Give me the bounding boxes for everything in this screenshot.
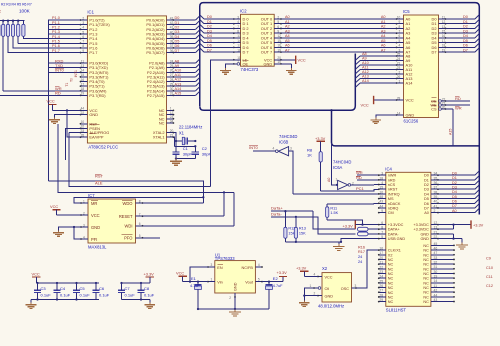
svg-text:5: 5 <box>82 30 84 34</box>
svg-text:+3.3V: +3.3V <box>144 271 155 276</box>
svg-text:C8: C8 <box>144 286 150 291</box>
svg-text:+3.3VDC: +3.3VDC <box>413 228 429 232</box>
svg-text:P1.7: P1.7 <box>52 49 60 53</box>
IC7 GND pin 3 <box>81 226 88 228</box>
svg-text:C11: C11 <box>486 275 493 279</box>
svg-text:1.5K: 1.5K <box>330 211 338 215</box>
wire MR loop <box>74 197 203 203</box>
svg-text:A9: A9 <box>362 57 367 61</box>
IC4 A0 pin <box>431 212 438 214</box>
svg-text:GND: GND <box>406 113 415 118</box>
inverter IC6B <box>278 147 288 156</box>
IC4 X2 pin 17 <box>379 254 386 256</box>
svg-text:5: 5 <box>399 39 401 43</box>
svg-text:20: 20 <box>379 256 383 260</box>
wire resistor to P1.4 <box>23 36 80 38</box>
svg-text:T1: T1 <box>65 83 69 87</box>
svg-text:IC4: IC4 <box>385 166 392 171</box>
svg-text:37: 37 <box>170 44 174 48</box>
svg-text:D5: D5 <box>207 39 212 43</box>
wire X2 Ctl GND <box>304 288 314 301</box>
svg-text:INT1: INT1 <box>74 70 78 77</box>
svg-text:39: 39 <box>170 35 174 39</box>
svg-text:D4: D4 <box>424 192 429 196</box>
svg-text:OSC: OSC <box>341 287 349 291</box>
svg-text:A1: A1 <box>381 20 386 24</box>
svg-text:7: 7 <box>399 29 401 33</box>
svg-text:13: 13 <box>237 34 241 38</box>
svg-text:11: 11 <box>434 284 438 288</box>
svg-text:A12: A12 <box>175 78 182 82</box>
svg-text:A13: A13 <box>362 75 369 79</box>
wires bus to IC2 inputs with D labels <box>200 15 204 19</box>
wires A0-A7 latch to RAM <box>281 18 397 20</box>
svg-text:13: 13 <box>442 25 446 29</box>
svg-text:AT89C52 PLCC: AT89C52 PLCC <box>88 145 118 150</box>
RAM IC5 body <box>404 15 439 118</box>
ground at IC2 OE <box>226 64 234 68</box>
svg-text:NC: NC <box>388 281 394 285</box>
svg-text:D2: D2 <box>207 25 212 29</box>
svg-text:A12: A12 <box>362 70 369 74</box>
IC4 data pins D0-D7 <box>431 174 438 176</box>
svg-text:A0: A0 <box>327 178 331 182</box>
+3.3V at IC4 right <box>438 224 471 226</box>
ground at cap bank 2 <box>149 300 151 303</box>
svg-text:NC: NC <box>388 300 394 304</box>
svg-text:D2: D2 <box>452 181 457 185</box>
svg-text:2: 2 <box>434 209 436 213</box>
svg-text:X2: X2 <box>322 266 328 271</box>
svg-text:A0: A0 <box>381 15 386 19</box>
ground at IC7 <box>58 227 81 230</box>
wires RAM D0-D7 to bus <box>446 18 475 20</box>
svg-text:4: 4 <box>83 235 85 239</box>
svg-text:61C256: 61C256 <box>404 118 419 123</box>
wire caps to ground <box>176 157 195 158</box>
svg-text:MR: MR <box>91 201 97 206</box>
svg-text:30pF: 30pF <box>183 152 193 157</box>
svg-text:VCC: VCC <box>361 103 369 108</box>
svg-text:D7: D7 <box>452 204 457 208</box>
IC4 left control pins <box>379 174 386 176</box>
IC1 EA/VPP pin 35 <box>81 136 88 138</box>
svg-text:NC: NC <box>423 286 429 290</box>
svg-text:D6: D6 <box>452 199 457 203</box>
svg-text:41: 41 <box>170 26 174 30</box>
svg-text:PFO: PFO <box>124 236 132 241</box>
svg-text:D4: D4 <box>207 34 212 38</box>
svg-text:D2: D2 <box>175 26 180 30</box>
svg-text:9: 9 <box>399 20 401 24</box>
wire IC2 LE from ALE <box>210 60 234 187</box>
svg-text:13: 13 <box>434 226 438 230</box>
wire USB GND <box>341 239 379 242</box>
IC7 WDO pin 8 <box>136 202 143 204</box>
svg-text:D3: D3 <box>463 29 468 33</box>
svg-text:D1: D1 <box>463 20 468 24</box>
wire P1.1 <box>49 24 81 26</box>
ground at IC5 GND <box>376 115 397 118</box>
IC1 GND pin 22 <box>81 114 88 116</box>
svg-text:NC: NC <box>388 272 394 276</box>
svg-text:A3: A3 <box>381 29 386 33</box>
svg-text:DaTa+: DaTa+ <box>271 206 283 211</box>
IC7 VCC pin 2 <box>81 214 88 216</box>
svg-text:A0: A0 <box>452 209 457 213</box>
svg-text:C1: C1 <box>183 146 189 151</box>
svg-text:A14: A14 <box>362 79 369 83</box>
svg-text:24: 24 <box>379 275 383 279</box>
ferrite bead L1 <box>358 227 369 231</box>
svg-text:20: 20 <box>442 105 446 109</box>
svg-text:16: 16 <box>442 34 446 38</box>
svg-text:100K: 100K <box>19 9 31 14</box>
IC1 pins P0.0-P0.7 <box>167 19 174 21</box>
svg-text:T0: T0 <box>70 78 74 82</box>
svg-text:VCC: VCC <box>47 99 55 104</box>
svg-text:26: 26 <box>379 284 383 288</box>
svg-text:A5: A5 <box>381 39 386 43</box>
svg-text:4.7uF: 4.7uF <box>190 284 200 288</box>
svg-text:24: 24 <box>170 59 174 63</box>
svg-text:17: 17 <box>237 44 241 48</box>
IC4 power and USB pins <box>379 224 386 226</box>
wire inverter IC6B output <box>253 150 276 152</box>
svg-text:DATA+: DATA+ <box>388 228 401 232</box>
svg-text:4: 4 <box>82 26 84 30</box>
svg-text:NC: NC <box>388 263 394 267</box>
svg-text:10: 10 <box>277 60 281 64</box>
svg-text:P1.0: P1.0 <box>52 16 60 20</box>
net label WR at IC5 WE <box>446 104 471 106</box>
svg-text:A13: A13 <box>175 82 182 86</box>
U1 Vout pin <box>255 281 262 283</box>
svg-text:26: 26 <box>170 69 174 73</box>
svg-text:EN: EN <box>217 266 223 270</box>
svg-text:P2.7(A15): P2.7(A15) <box>147 93 165 98</box>
svg-text:22: 22 <box>81 111 85 115</box>
wire ALE stub from IC1 <box>69 132 81 134</box>
svg-text:IC6A: IC6A <box>333 165 343 170</box>
IC4 right NC pins <box>431 244 454 246</box>
svg-text:D5: D5 <box>424 197 429 201</box>
svg-text:8: 8 <box>381 226 383 230</box>
svg-text:GND: GND <box>91 225 100 230</box>
svg-text:28: 28 <box>379 293 383 297</box>
svg-text:42: 42 <box>434 289 438 293</box>
svg-text:WDO: WDO <box>122 201 132 206</box>
resistor R12 15K <box>284 211 286 227</box>
svg-text:33: 33 <box>434 256 438 260</box>
X2 GND pin 2 <box>318 295 322 297</box>
svg-text:11: 11 <box>442 15 446 19</box>
svg-text:MAX813L: MAX813L <box>88 244 107 249</box>
svg-text:38: 38 <box>434 190 438 194</box>
svg-text:IC5: IC5 <box>403 9 410 14</box>
svg-text:MS: MS <box>388 197 394 201</box>
svg-text:D1: D1 <box>424 178 429 182</box>
ground at X2 <box>303 301 305 303</box>
svg-text:15: 15 <box>442 29 446 33</box>
wire ALE line to latch LE <box>69 133 210 187</box>
svg-text:GND: GND <box>325 294 334 298</box>
X2 OSC pin 3 <box>352 287 357 289</box>
svg-text:5: 5 <box>258 278 260 282</box>
pull-up resistors 100K bodies <box>2 21 4 25</box>
ferrite bead L2 <box>358 232 369 236</box>
svg-text:nRD: nRD <box>388 178 396 182</box>
svg-text:15: 15 <box>379 186 383 190</box>
wire WDO loop line1 <box>49 181 204 203</box>
IC5 CS pin 20 <box>439 108 442 111</box>
svg-text:2: 2 <box>83 211 85 215</box>
svg-text:VCC: VCC <box>325 275 333 279</box>
svg-text:20: 20 <box>170 129 174 133</box>
wire WDI up <box>143 192 235 225</box>
svg-text:48.0/12.0MHz: 48.0/12.0MHz <box>318 303 344 308</box>
svg-text:15: 15 <box>277 39 281 43</box>
svg-text:A9: A9 <box>175 64 180 68</box>
capacitor E1 4.7uF <box>197 282 199 285</box>
svg-text:NC: NC <box>423 300 429 304</box>
svg-text:nRST: nRST <box>388 188 398 192</box>
svg-text:TPS76333: TPS76333 <box>215 256 235 261</box>
svg-text:+3.3V: +3.3V <box>277 270 288 275</box>
svg-text:D6: D6 <box>175 44 180 48</box>
svg-text:6: 6 <box>399 34 401 38</box>
svg-text:EA/VPP: EA/VPP <box>89 135 103 140</box>
svg-text:NC: NC <box>423 263 429 267</box>
IC1 XTAL1 pin 21 <box>167 136 174 138</box>
wires P2 to bus with A8-A15 labels <box>173 62 195 64</box>
wire IC6A output <box>351 184 374 186</box>
wire DaTa+ <box>271 211 356 229</box>
svg-text:IC6B: IC6B <box>279 139 289 144</box>
IC1 pins P3.0-P3.7 <box>81 62 88 64</box>
svg-text:25: 25 <box>170 64 174 68</box>
svg-text:R17: R17 <box>358 250 365 254</box>
svg-text:P0.7(AD7): P0.7(AD7) <box>146 50 165 55</box>
svg-text:25: 25 <box>397 52 401 56</box>
svg-text:VCC: VCC <box>50 204 58 209</box>
wires P0 to bus with D0-D7 labels <box>173 19 195 21</box>
wire PFO stub <box>143 237 161 239</box>
ground under crystal <box>175 159 177 162</box>
svg-text:18: 18 <box>81 87 85 91</box>
svg-text:NC: NC <box>423 291 429 295</box>
IC2 input pins D0-D7 <box>234 18 241 20</box>
svg-text:14: 14 <box>397 111 401 115</box>
svg-text:19: 19 <box>442 48 446 52</box>
net label RD at IC5 OE <box>446 100 471 102</box>
svg-text:0.1uF: 0.1uF <box>80 293 91 298</box>
ground at IC2 GND <box>281 64 291 68</box>
svg-text:A6: A6 <box>381 44 386 48</box>
wire RD from clipped resistor <box>0 94 81 96</box>
svg-text:D1: D1 <box>452 176 457 180</box>
X2 VCC pin 4 <box>318 276 322 278</box>
latch IC2 body <box>241 14 275 66</box>
svg-text:+3.3V: +3.3V <box>296 266 307 271</box>
IC5 WE pin 27 <box>439 104 442 107</box>
svg-text:X2: X2 <box>388 253 393 257</box>
svg-text:D4: D4 <box>463 34 468 38</box>
capacitor C6 0.1uF <box>95 283 97 287</box>
svg-text:9: 9 <box>277 29 279 33</box>
svg-text:44: 44 <box>379 204 383 208</box>
svg-text:7: 7 <box>82 40 84 44</box>
ground rail under R12 R13 <box>285 241 341 243</box>
svg-text:Vin: Vin <box>217 280 222 284</box>
svg-text:18: 18 <box>237 48 241 52</box>
svg-text:D0: D0 <box>207 15 212 19</box>
svg-text:GND: GND <box>234 282 238 291</box>
svg-text:D0: D0 <box>424 174 429 178</box>
svg-text:C12: C12 <box>486 284 493 288</box>
svg-text:D7: D7 <box>432 50 437 55</box>
svg-text:3: 3 <box>83 223 85 227</box>
svg-text:NC: NC <box>423 295 429 299</box>
svg-text:44: 44 <box>434 293 438 297</box>
IC4 right power pins <box>431 224 438 226</box>
wire U1 bottom rail <box>197 293 199 309</box>
svg-text:8: 8 <box>139 199 141 203</box>
svg-text:4: 4 <box>237 20 239 24</box>
svg-text:E1: E1 <box>191 276 197 281</box>
wires A8-A14 bus to RAM <box>355 56 360 60</box>
IC1 pins P1.0-P1.7 <box>81 19 88 21</box>
svg-text:WDI: WDI <box>125 224 133 229</box>
svg-text:24: 24 <box>358 255 362 259</box>
svg-text:17: 17 <box>81 82 85 86</box>
svg-text:48: 48 <box>379 195 383 199</box>
IC1 PSEN pin 32 <box>81 127 88 129</box>
svg-text:34: 34 <box>434 172 438 176</box>
svg-text:NC: NC <box>388 277 394 281</box>
svg-text:P1.4: P1.4 <box>52 35 60 39</box>
svg-text:A11: A11 <box>362 66 368 70</box>
svg-text:24: 24 <box>397 57 401 61</box>
svg-text:29: 29 <box>379 298 383 302</box>
svg-text:D4: D4 <box>175 35 180 39</box>
wire XTAL1 to crystal <box>173 137 195 151</box>
capacitor C7 0.1uF <box>121 283 123 287</box>
svg-text:X1: X1 <box>179 130 185 135</box>
IC4 left NC pins <box>379 259 386 261</box>
capacitor C5 0.1uF <box>76 283 78 287</box>
svg-text:nDACK: nDACK <box>388 202 401 206</box>
svg-text:9: 9 <box>381 209 383 213</box>
svg-text:C7: C7 <box>125 286 131 291</box>
IC2 VCC pin 20 <box>274 59 281 61</box>
capacitor C2 <box>192 151 199 153</box>
wire INT0 <box>48 71 81 73</box>
wire P1.2 <box>49 28 81 30</box>
svg-text:7: 7 <box>381 230 383 234</box>
svg-text:46: 46 <box>434 246 438 250</box>
svg-text:32: 32 <box>434 261 438 265</box>
svg-text:3: 3 <box>211 263 213 267</box>
svg-text:VCC: VCC <box>176 271 184 276</box>
svg-text:OE: OE <box>243 61 249 66</box>
svg-text:0.1uF: 0.1uF <box>60 293 71 298</box>
svg-text:NC: NC <box>423 281 429 285</box>
svg-text:23: 23 <box>397 66 401 70</box>
svg-text:36: 36 <box>434 181 438 185</box>
svg-text:19: 19 <box>277 48 281 52</box>
microcontroller IC1 AT89C52 body <box>87 16 166 143</box>
svg-text:43: 43 <box>434 298 438 302</box>
svg-text:19: 19 <box>434 275 438 279</box>
svg-text:12: 12 <box>442 20 446 24</box>
IC7 PFO pin 5 <box>136 237 143 239</box>
svg-text:A14: A14 <box>175 87 182 91</box>
X2 Ctl pin 1 <box>318 287 321 290</box>
svg-text:D1: D1 <box>207 20 212 24</box>
svg-text:74HC04D: 74HC04D <box>333 159 351 164</box>
svg-text:17: 17 <box>379 251 383 255</box>
svg-text:DATA-: DATA- <box>388 232 400 236</box>
wire IC4 A0 to bus <box>438 212 475 214</box>
svg-text:4: 4 <box>273 147 275 151</box>
VCC rail of resistor network <box>0 20 25 22</box>
svg-text:10: 10 <box>81 120 85 124</box>
wires IC4 D0-D7 to bus <box>438 174 475 176</box>
svg-text:R2 R3 R4 R5 R6 R7: R2 R3 R4 R5 R6 R7 <box>1 3 32 7</box>
svg-text:D7: D7 <box>424 206 429 210</box>
svg-text:2: 2 <box>82 16 84 20</box>
wire WDO to loop <box>143 202 204 204</box>
regulator U1 body <box>215 261 256 293</box>
svg-text:D7: D7 <box>463 48 468 52</box>
wire RST to MAX813 RESET <box>58 124 234 193</box>
cap bank2 top rail <box>122 282 150 284</box>
svg-text:NC: NC <box>423 272 429 276</box>
svg-text:A0: A0 <box>424 211 429 215</box>
svg-text:P1.6: P1.6 <box>52 44 60 48</box>
svg-text:CM: CM <box>388 211 394 215</box>
wire RESET from RST line <box>143 215 225 217</box>
svg-text:9: 9 <box>82 49 84 53</box>
ground USB <box>338 244 340 247</box>
bus lower horizontal run <box>200 54 355 111</box>
resistor R13 15K <box>295 217 297 227</box>
svg-text:A2: A2 <box>285 25 290 29</box>
wire resistor to P1.5 <box>18 36 80 43</box>
svg-text:21: 21 <box>434 230 438 234</box>
capacitor C4 0.1uF <box>56 283 58 287</box>
svg-text:A11: A11 <box>175 73 181 77</box>
svg-text:CLK/X1: CLK/X1 <box>388 249 401 253</box>
svg-text:A10: A10 <box>362 61 369 65</box>
IC5 address pins A0-A7 <box>397 18 404 20</box>
wire XTAL2 to crystal <box>173 133 176 152</box>
svg-text:D4: D4 <box>452 190 457 194</box>
IC1 RST pin 10 <box>81 123 88 125</box>
svg-text:3: 3 <box>82 21 84 25</box>
wire EN down to Vin rail <box>190 267 208 282</box>
svg-text:1: 1 <box>399 79 401 83</box>
svg-text:4.7uF: 4.7uF <box>273 284 283 288</box>
svg-text:C2: C2 <box>202 146 208 151</box>
svg-text:XTAL1: XTAL1 <box>153 135 165 140</box>
svg-text:NC/FB: NC/FB <box>241 266 253 270</box>
svg-text:2: 2 <box>277 15 279 19</box>
svg-text:USB GND: USB GND <box>388 237 406 241</box>
svg-text:30: 30 <box>434 270 438 274</box>
svg-text:SL811HST: SL811HST <box>386 308 407 313</box>
